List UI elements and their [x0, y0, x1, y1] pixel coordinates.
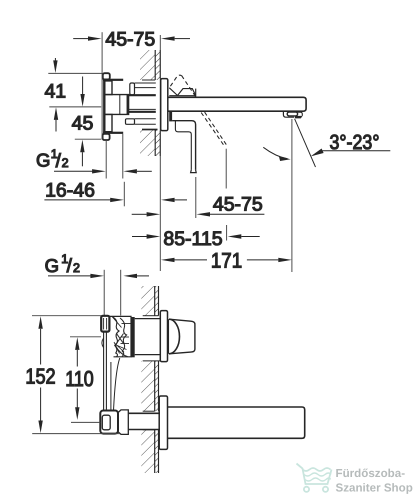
svg-text:2: 2	[62, 156, 69, 170]
swing arc with arrowhead	[263, 147, 290, 161]
elbow (bottom view)	[100, 411, 118, 434]
handle swing dashed lines	[201, 112, 226, 145]
outlet pipe (top view lower)	[126, 109, 156, 124]
down pipe (bottom view)	[102, 332, 120, 411]
svg-text:45-75: 45-75	[105, 28, 155, 50]
lever handle up position (dashed)	[170, 75, 196, 97]
escutcheon plate (top view)	[161, 79, 168, 131]
cartridge crown (bottom view body)	[109, 316, 135, 357]
dimension 45	[72, 77, 102, 167]
svg-text:16-46: 16-46	[45, 180, 95, 202]
wall section (bottom view) hatched band	[141, 286, 160, 473]
wall pipe to spout (bottom view)	[128, 413, 160, 429]
handle knob (bottom view)	[169, 319, 195, 354]
svg-text:G: G	[36, 150, 50, 171]
label G 1/2 (top view) with dimension	[36, 134, 152, 179]
svg-text:G: G	[45, 255, 59, 276]
valve rough-in body (top view)	[103, 73, 129, 140]
svg-text:Fürdőszoba-: Fürdőszoba-	[336, 467, 406, 480]
lever handle down position (solid)	[172, 121, 196, 173]
svg-text:45-75: 45-75	[213, 194, 263, 216]
spout (bottom view)	[168, 407, 305, 438]
extension line wall face x=160.3	[159, 35, 161, 271]
supply pipe (top view upper)	[129, 83, 156, 95]
label G 1/2 (bottom view) with dimension	[45, 252, 149, 278]
extension from dashed handle tip	[225, 149, 227, 189]
cartridge cylinder through wall (bottom view)	[135, 319, 161, 355]
svg-text:Szaniter Shop: Szaniter Shop	[336, 481, 413, 494]
svg-text:/: /	[67, 256, 73, 277]
dimension 41	[44, 58, 102, 132]
dimension 45-75 (handle protrusion)	[132, 177, 265, 218]
G 1/2 supply stub extension lines (bottom view)	[104, 270, 121, 316]
wall section (top view) hatched band	[140, 50, 160, 156]
svg-text:171: 171	[211, 250, 242, 273]
svg-text:152: 152	[25, 365, 55, 389]
escutcheon spout (bottom view)	[159, 396, 167, 449]
escutcheon handle (bottom view)	[160, 311, 167, 362]
inlet union block (bottom view)	[101, 316, 109, 332]
cartridge dome (top view, solid hump)	[169, 88, 195, 98]
aerator under spout end	[283, 111, 302, 118]
water stream vertical reference line	[291, 119, 293, 272]
spout (top view)	[168, 97, 306, 111]
dimension 45-75 (top)	[73, 28, 190, 139]
svg-text:45: 45	[72, 113, 94, 135]
label 3deg-23deg with leader	[311, 131, 391, 157]
handle pivot block (dark)	[169, 112, 172, 122]
watermark shop logo	[297, 464, 332, 492]
dimension 171	[161, 250, 292, 273]
svg-text:85-115: 85-115	[163, 228, 222, 250]
dimension 152	[25, 316, 120, 434]
svg-text:41: 41	[44, 81, 66, 103]
svg-text:110: 110	[65, 367, 94, 391]
dimension 16-46	[44, 180, 187, 207]
spray angle slanted line	[295, 119, 316, 167]
svg-text:2: 2	[73, 261, 80, 275]
dimension 110	[65, 337, 101, 423]
dimension 85-115	[132, 225, 260, 250]
union nut (bottom view)	[118, 410, 128, 435]
